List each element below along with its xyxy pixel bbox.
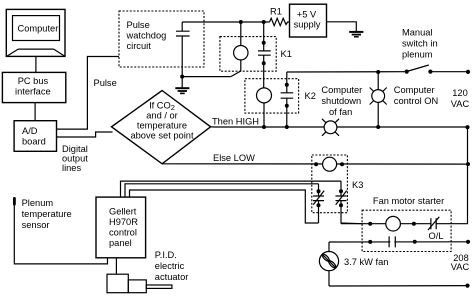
manual switch S1 <box>405 65 433 74</box>
svg-text:A/D: A/D <box>22 126 38 136</box>
A/D board box <box>14 121 56 152</box>
svg-text:interface: interface <box>15 87 51 97</box>
wire A/D board to decision diamond <box>57 132 113 137</box>
decision diamond: If CO2 and/or temperature above set point <box>112 91 211 164</box>
capacitor C1 in watchdog circuit <box>176 22 190 77</box>
svg-text:Manual: Manual <box>402 28 433 38</box>
relay contact K1 (capacitor style) <box>258 22 271 88</box>
node: ground junction under watchdog <box>180 75 184 79</box>
ground (watchdog) <box>175 77 189 94</box>
relay K3 dashed box <box>312 155 348 213</box>
relay coil K2 <box>257 88 272 127</box>
starter coil M <box>386 216 401 231</box>
relay coil K1 <box>231 22 248 77</box>
wire bundle line 3: Gellert panel to K3a bottom <box>130 190 319 223</box>
svg-text:Pulse: Pulse <box>127 20 150 30</box>
svg-text:above set point: above set point <box>130 131 193 141</box>
computer (monitor icon) <box>6 9 65 56</box>
wire +5V rail (watchdog cap to R1) <box>182 21 269 23</box>
relay K1 dashed box <box>220 37 276 72</box>
svg-text:Else LOW: Else LOW <box>213 153 255 163</box>
wire Gellert panel to P.I.D. actuator <box>115 258 117 274</box>
svg-text:Gellert: Gellert <box>109 207 137 217</box>
svg-text:3.7 kW fan: 3.7 kW fan <box>344 257 388 267</box>
wire bundle line 1: Gellert panel to K3b top <box>121 181 342 196</box>
svg-text:P.I.D.: P.I.D. <box>155 250 177 260</box>
wire bottom rail 208VAC <box>329 284 470 288</box>
svg-text:O/L: O/L <box>429 231 444 241</box>
pulse watchdog circuit dashed box <box>119 11 204 67</box>
svg-text:K3: K3 <box>352 180 363 190</box>
wire bundle line 2: Gellert panel to K3a top <box>125 184 319 197</box>
wire Else LOW (to K3 coil and right rail) <box>162 162 470 166</box>
label 120 VAC <box>451 88 470 109</box>
wire supply to ground <box>327 22 357 32</box>
wire starter bottom row (M contact row) <box>329 240 470 244</box>
svg-text:Computer: Computer <box>394 85 435 95</box>
lamp: computer control ON <box>370 70 387 129</box>
svg-text:VAC: VAC <box>451 262 470 272</box>
wire PC bus to A/D board <box>34 103 36 121</box>
svg-text:temperature: temperature <box>137 121 187 131</box>
relay contact K3a (left, with slash) <box>313 184 324 223</box>
plenum temperature sensor icon <box>13 197 108 264</box>
ground (+5V supply) <box>349 32 363 37</box>
svg-text:120: 120 <box>452 88 468 98</box>
svg-text:control: control <box>109 228 137 238</box>
svg-text:+5 V: +5 V <box>297 10 317 20</box>
svg-text:PC bus: PC bus <box>18 76 49 86</box>
label computer control ON <box>394 85 438 106</box>
svg-text:electric: electric <box>155 261 185 271</box>
svg-text:K2: K2 <box>305 91 316 101</box>
P.I.D. electric actuator <box>107 274 172 293</box>
resistor R1 <box>270 7 290 26</box>
svg-text:supply: supply <box>294 20 321 30</box>
wire junction to K1 coil return <box>182 76 231 78</box>
label digital output lines <box>62 144 88 173</box>
svg-text:K1: K1 <box>281 49 292 59</box>
label P.I.D. electric actuator <box>155 250 189 282</box>
wire pulse: A/D board to watchdog circuit <box>57 57 120 130</box>
svg-text:Then HIGH: Then HIGH <box>212 117 259 127</box>
svg-text:R1: R1 <box>270 7 282 17</box>
svg-text:Plenum: Plenum <box>22 198 54 208</box>
wire Then HIGH <box>211 125 470 129</box>
svg-text:and / or: and / or <box>146 111 178 121</box>
svg-text:of fan: of fan <box>329 107 352 117</box>
fan motor starter dashed box <box>362 210 451 251</box>
svg-text:temperature: temperature <box>22 209 72 219</box>
svg-text:shutdown: shutdown <box>321 96 361 106</box>
Gellert H970R control panel box <box>96 197 146 258</box>
relay contact K3b (right, with slash) <box>336 181 363 224</box>
relay contact K2 (capacitor style) <box>281 72 294 127</box>
svg-text:lines: lines <box>62 163 81 173</box>
node on +5V rail at K1 coil <box>239 20 243 24</box>
svg-text:plenum: plenum <box>402 50 433 60</box>
label 208 VAC <box>451 253 470 272</box>
M contact (capacitor style) <box>389 236 395 247</box>
wire starter top row <box>341 222 468 226</box>
svg-text:Computer: Computer <box>18 24 59 34</box>
lamp: computer shutdown of fan <box>322 119 339 136</box>
svg-text:H970R: H970R <box>109 217 138 227</box>
svg-text:panel: panel <box>109 238 132 248</box>
svg-text:Digital: Digital <box>62 144 88 154</box>
right rail 120VAC down to starter <box>467 128 469 224</box>
svg-text:output: output <box>62 154 88 164</box>
node on +5V rail at K1 contact <box>262 20 266 24</box>
svg-text:control ON: control ON <box>394 96 438 106</box>
svg-text:Computer: Computer <box>321 85 362 95</box>
relay K2 dashed box <box>245 79 299 113</box>
fan motor 3.7 kW <box>319 242 338 286</box>
svg-text:VAC: VAC <box>451 99 470 109</box>
label computer shutdown of fan <box>321 85 362 117</box>
O/L overload contact (with slash) <box>428 217 439 230</box>
svg-text:circuit: circuit <box>127 41 152 51</box>
label manual switch in plenum <box>402 28 438 60</box>
PC bus interface box <box>2 72 65 102</box>
svg-text:Fan motor starter: Fan motor starter <box>373 196 444 206</box>
label plenum temperature sensor <box>22 198 72 230</box>
svg-text:switch in: switch in <box>402 39 438 49</box>
+5V supply box <box>290 4 327 37</box>
svg-text:watchdog: watchdog <box>126 31 167 41</box>
wire 120VAC top rail <box>287 70 470 74</box>
svg-text:board: board <box>22 137 46 147</box>
svg-text:actuator: actuator <box>155 272 189 282</box>
relay coil K3 <box>323 157 337 171</box>
wire computer to PC bus <box>35 56 37 72</box>
svg-text:sensor: sensor <box>22 220 50 230</box>
svg-text:Pulse: Pulse <box>94 78 117 88</box>
